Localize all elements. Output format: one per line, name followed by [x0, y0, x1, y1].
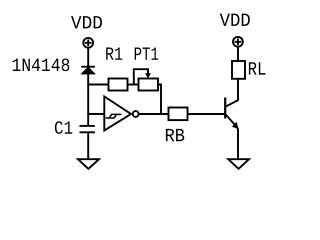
potentiometer PT1 body: [139, 79, 159, 91]
wire: feedback branch from left rail to R1: [87, 84, 108, 86]
wire: inverter output to RB: [139, 113, 169, 115]
ground (right): [228, 159, 249, 169]
diode D1 value label 1N4148: [13, 58, 70, 71]
resistor RB label: [166, 129, 184, 141]
wire: emitter down to ground: [237, 129, 239, 160]
potentiometer PT1 wiper arm: [134, 69, 151, 84]
wire: VDD right to RL: [237, 47, 239, 61]
wire: VDD left to diode cathode: [87, 48, 89, 67]
wire: RB to transistor base: [188, 113, 225, 115]
transistor Q1 emitter lead with arrow: [226, 115, 239, 130]
diode D1 (1N4148), cathode bar up: [81, 67, 96, 74]
net VDD (left) label: [71, 16, 102, 28]
resistor R1: [109, 79, 128, 91]
transistor Q1 base bar: [224, 98, 226, 119]
resistor RB: [169, 108, 188, 121]
power symbol VDD (right): circle with plus: [233, 37, 243, 47]
U1 hysteresis symbol: [106, 114, 122, 118]
wire: left rail, diode anode down to C1 top plate: [87, 74, 89, 125]
resistor RL label: [249, 62, 265, 74]
wire: C1 bottom to ground: [87, 133, 89, 159]
U1 output inversion bubble: [133, 111, 139, 117]
ground (left): [78, 159, 99, 169]
net VDD (right) label: [220, 14, 250, 26]
wire: inverter input from left rail: [87, 113, 104, 115]
op-amp U1: Schmitt-trigger inverter triangle: [104, 97, 131, 131]
wire: PT1 to feedback corner down to output: [158, 85, 161, 115]
capacitor C1 plates: [80, 126, 95, 132]
resistor RL: [232, 61, 245, 79]
capacitor C1 label: [55, 121, 72, 134]
resistor R1 label: [106, 47, 122, 59]
wire: R1 to PT1: [128, 84, 139, 86]
transistor Q1 collector lead: [225, 79, 238, 107]
potentiometer PT1 label: [135, 47, 158, 59]
power symbol VDD (left): circle with plus: [83, 38, 93, 48]
